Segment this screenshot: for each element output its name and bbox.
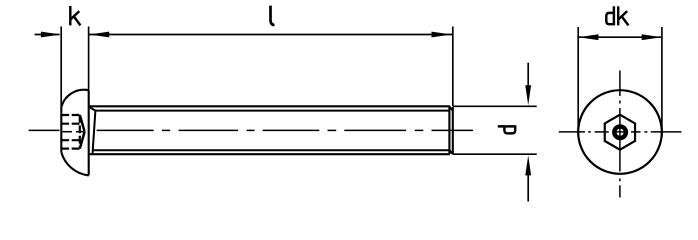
extension line k right / l left [88, 27, 90, 91]
hex socket hidden lines (side view) [61, 115, 80, 149]
screw head flat face [60, 107, 62, 152]
label d (rotated 90 ccw) [498, 126, 517, 133]
thread minor bottom line [93, 149, 450, 151]
dimension k arrow [35, 32, 61, 38]
screw head washer face [88, 90, 90, 175]
d dimension arrow bottom [525, 155, 531, 201]
extension line l right [452, 27, 454, 107]
hex socket (front view) [605, 115, 635, 150]
dk extension line right [661, 27, 663, 137]
shank outer top line [89, 105, 450, 107]
socket bottom ring [614, 126, 626, 138]
d dimension extension top [453, 105, 537, 107]
d dimension extension bottom [453, 153, 537, 155]
horizontal centerline (front view) [559, 131, 682, 133]
dk dimension line [578, 34, 661, 40]
thread minor top line [95, 110, 449, 112]
tip chamfer diagonal bottom [449, 150, 452, 154]
socket bottom cone V [80, 115, 85, 149]
head outer circle (front view) [578, 90, 662, 174]
label k [70, 6, 80, 25]
vertical centerline (front view) [619, 71, 621, 198]
tip end face [452, 107, 454, 154]
screw head dome arc bottom [61, 152, 88, 175]
d dimension arrow top [525, 63, 531, 106]
thread runout slant line [93, 111, 96, 155]
dimension l line [89, 32, 452, 38]
extension line k left [60, 27, 62, 108]
tip chamfer diagonal top [449, 107, 452, 111]
screw head dome arc top [61, 90, 88, 108]
label l [271, 6, 275, 25]
centerline (screw axis, side view) [29, 130, 473, 131]
thread runout diagonal at head [89, 107, 96, 111]
dk extension line left [577, 27, 579, 137]
label dk [606, 6, 628, 25]
shank outer bottom line [89, 153, 450, 155]
tip chamfer edge line [448, 106, 450, 154]
